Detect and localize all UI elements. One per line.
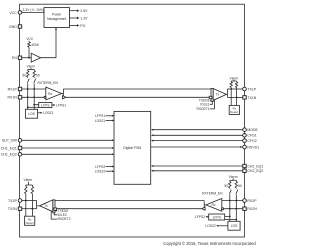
Digital FSM block (114, 111, 151, 184)
svg-text:RX2P: RX2P (247, 199, 257, 203)
svg-text:RX1N: RX1N (7, 96, 17, 100)
wire ch1 N path to output mux (66, 96, 211, 98)
junction dots ch2 termination taps (229, 200, 231, 202)
svg-text:1.2V: 1.2V (80, 16, 88, 20)
PM output 1.2V (70, 16, 89, 20)
wire switch to RX1P line (27, 84, 29, 89)
wire tap to LOS block ch1 (27, 89, 29, 109)
pin CFG1 (243, 134, 257, 138)
svg-text:3.3V (+/- 10%): 3.3V (+/- 10%) (23, 8, 44, 12)
mini driver ch2 N path (202, 207, 205, 210)
pin TX1P (243, 87, 257, 91)
pin RSVD1 (243, 145, 259, 149)
svg-text:TX2P: TX2P (8, 199, 17, 203)
wire to TX2P pin (22, 200, 37, 202)
inversion bubble RX2N input (222, 208, 224, 210)
signal LFPS1 into FSM (95, 114, 114, 118)
wires to Rx Detect ch1 (230, 89, 232, 105)
wire switch to RX1N line (33, 84, 35, 89)
svg-text:LFPS2: LFPS2 (95, 165, 105, 169)
signal IDLE1 (200, 101, 212, 106)
pin CH1_EQ1 (1, 146, 22, 150)
svg-text:RXTERM_EN: RXTERM_EN (38, 81, 59, 85)
Tx1 output split bar (226, 89, 227, 97)
output mux bar ch1 (211, 89, 213, 102)
svg-text:CFG2: CFG2 (247, 139, 256, 143)
svg-text:VCC: VCC (26, 37, 34, 41)
signal RXDET1 (196, 100, 214, 111)
wire CH1_EQ1 to FSM (22, 147, 114, 149)
equalizer output split bar ch2 (204, 201, 206, 208)
signal RXDET2 (51, 212, 71, 222)
svg-text:RSVD1: RSVD1 (247, 145, 259, 149)
equalizer output split bar ch1 (62, 89, 64, 96)
svg-text:400K: 400K (31, 43, 40, 47)
wire tap to LOS block ch2 (235, 201, 237, 222)
pin TX1N (243, 96, 257, 100)
svg-text:50: 50 (36, 73, 40, 77)
pullup resistor TX2P (25, 185, 27, 201)
junction dots TX2 termination (25, 200, 27, 202)
termination switch ch2 N (236, 190, 238, 195)
svg-text:LOSZ2: LOSZ2 (205, 224, 216, 228)
wire to TX1P pin (228, 88, 243, 90)
svg-text:CH2_EQ2: CH2_EQ2 (247, 169, 263, 173)
wire CH1_EQ2 to FSM (22, 153, 114, 155)
resistor 50 ohm ch1 N (33, 69, 40, 77)
resistor 50 ohm ch2 N (235, 180, 242, 188)
svg-text:50: 50 (238, 184, 242, 188)
power management block U-PM (44, 8, 70, 28)
chip boundary box (20, 4, 245, 237)
svg-text:RXDET2: RXDET2 (58, 217, 71, 221)
mini driver ch1 N path (63, 96, 66, 99)
svg-text:CFG1: CFG1 (247, 134, 256, 138)
Tx2 output split bar (37, 201, 40, 209)
pin TX2P (8, 199, 22, 203)
svg-text:SLP_S0#: SLP_S0# (2, 139, 17, 143)
svg-text:CH1_EQ1: CH1_EQ1 (1, 146, 17, 150)
junction EN/pullup (28, 57, 30, 59)
svg-text:LFPS: LFPS (213, 216, 222, 220)
LOS detector ch2 (228, 221, 240, 230)
signal LFPS1 out (52, 103, 66, 107)
pin TX2N (8, 207, 22, 211)
svg-text:Vterm: Vterm (27, 65, 36, 69)
wire FSM to RSVD1 (151, 146, 243, 148)
pin CH2_EQ2 (243, 169, 264, 173)
pin RX1P (8, 87, 22, 91)
svg-text:Copyright © 2016, Texas Instru: Copyright © 2016, Texas Instruments Inco… (163, 241, 256, 246)
wire ch1 P path to output mux (63, 88, 211, 90)
PM output 2.5V (70, 9, 89, 13)
wire RX2P to equalizer (222, 200, 243, 202)
resistor 50 ohm ch1 P (22, 69, 29, 77)
signal LOSZ1 into FSM (95, 119, 114, 123)
signal IDLE2 (54, 213, 67, 217)
svg-text:RX2N: RX2N (247, 207, 257, 211)
svg-text:RXTERM_EN: RXTERM_EN (202, 192, 223, 196)
termination switch ch2 P (229, 190, 231, 195)
wire RX2N to equalizer (224, 208, 243, 210)
svg-text:Vterm: Vterm (230, 76, 239, 80)
svg-text:Tx: Tx (44, 204, 48, 208)
svg-text:LFPS1: LFPS1 (56, 103, 66, 107)
pin EN (12, 56, 22, 60)
LFPS detector ch1 (39, 103, 52, 108)
wire CFG1 to FSM (151, 134, 243, 136)
svg-text:PG: PG (80, 24, 85, 28)
resistor 400K pullup (28, 41, 40, 58)
idle control block ch1 (209, 96, 212, 98)
svg-text:LOSZ1: LOSZ1 (43, 111, 54, 115)
EN input buffer (31, 53, 40, 62)
pin RX1N (7, 96, 21, 100)
pin CH2_EQ1 (243, 164, 264, 168)
pin GND (9, 25, 22, 29)
wire CH2_EQ1 to FSM (151, 165, 243, 167)
svg-text:LFPS2: LFPS2 (195, 215, 205, 219)
Tx driver ch1 (213, 89, 226, 101)
wire RX1P to equalizer (22, 88, 46, 90)
svg-text:RXDET1: RXDET1 (196, 107, 209, 111)
svg-text:CH2_EQ1: CH2_EQ1 (247, 164, 263, 168)
svg-text:Rx: Rx (48, 92, 52, 96)
wire to TX2N pin (22, 208, 37, 210)
pin CFG2 (243, 139, 257, 143)
wire SLP_S0# to FSM (22, 139, 114, 141)
PM output PG (70, 24, 86, 28)
signal LOSZ1 out (38, 111, 54, 115)
svg-text:Vterm: Vterm (24, 178, 33, 182)
svg-text:Detect: Detect (230, 110, 238, 114)
wire ch2 P path to output mux (55, 200, 204, 202)
svg-text:Management: Management (47, 17, 66, 21)
pin RX2P (243, 199, 258, 203)
wires to Rx Detect ch2 (25, 201, 27, 217)
svg-text:LOSZ1: LOSZ1 (95, 119, 106, 123)
pin CH1_EQ2 (1, 153, 22, 157)
Rx equalizer ch1 (46, 87, 62, 100)
wire EN buffer to Power Management (41, 29, 56, 57)
svg-text:2.5V: 2.5V (80, 9, 88, 13)
wire ch2 N path to output mux (55, 208, 202, 210)
termination rail ch1 out (231, 80, 236, 81)
svg-text:LOS: LOS (28, 112, 35, 116)
wire MODE to FSM (151, 129, 243, 131)
Rx Detect block ch2 (25, 216, 35, 225)
wire CH2_EQ2 to FSM (151, 170, 243, 172)
pullup resistor TX1P (230, 81, 232, 89)
junction dots ch1 termination taps (27, 88, 29, 90)
wire switch to RX2P line (229, 195, 231, 201)
svg-text:EN: EN (12, 56, 17, 60)
svg-text:LOS: LOS (231, 224, 238, 228)
svg-text:GND: GND (9, 25, 17, 29)
idle control block ch2 (54, 208, 57, 210)
pin MODE (243, 128, 259, 132)
wire VCC to Power Management (22, 11, 44, 13)
svg-text:50: 50 (224, 184, 228, 188)
wire RX1N to equalizer (22, 96, 44, 98)
signal LOSZ2 into FSM (95, 170, 114, 174)
signal LOSZ2 out (205, 224, 228, 228)
wire tap to LFPS block ch2 (225, 201, 230, 217)
svg-text:TX2N: TX2N (8, 207, 17, 211)
signal TXEN2 (55, 209, 68, 213)
wire tap to LFPS block ch1 (34, 89, 39, 105)
svg-text:Detect: Detect (26, 221, 34, 225)
svg-text:VCC: VCC (9, 11, 17, 15)
wire CFG2 to FSM (151, 140, 243, 142)
signal LFPS2 into FSM (95, 165, 114, 169)
wire EN pin to buffer (22, 57, 32, 59)
Tx driver ch2 (40, 200, 53, 212)
termination rail ch2 out (26, 182, 33, 185)
svg-text:LFPS1: LFPS1 (95, 114, 105, 118)
svg-text:50: 50 (22, 73, 26, 77)
svg-text:TX1P: TX1P (247, 87, 256, 91)
pullup resistor TX2N (31, 185, 33, 209)
svg-text:LFPS: LFPS (41, 104, 50, 108)
pin RX2N (243, 207, 257, 211)
pin SLP_S0# (2, 139, 22, 143)
junction dots TX1 termination (230, 88, 232, 90)
termination rail ch1 (28, 68, 35, 69)
termination rail ch2 (230, 178, 237, 180)
pin VCC (9, 11, 21, 15)
Rx equalizer ch2 (206, 199, 222, 212)
LOS detector ch1 (25, 109, 37, 118)
pullup resistor TX1N (235, 81, 237, 97)
wire switch to RX2N line (235, 195, 237, 201)
signal TXEN1 (199, 98, 211, 102)
svg-text:RX1P: RX1P (8, 87, 18, 91)
svg-text:Tx: Tx (216, 92, 220, 96)
signal LFPS2 out (195, 215, 209, 219)
termination switch ch1 N (34, 79, 36, 84)
svg-text:Rx: Rx (211, 203, 215, 207)
output mux bar ch2 (53, 200, 55, 213)
svg-text:Vterm: Vterm (229, 175, 238, 179)
inversion bubble RX1N input (44, 96, 46, 98)
resistor 50 ohm ch2 P (224, 180, 231, 188)
termination switch ch1 P (27, 79, 29, 84)
wire to TX1N pin (228, 96, 243, 98)
LFPS detector ch2 (209, 214, 225, 220)
svg-text:CH1_EQ2: CH1_EQ2 (1, 153, 17, 157)
svg-text:MODE: MODE (247, 128, 258, 132)
Rx Detect block ch1 (229, 105, 239, 114)
svg-text:TX1N: TX1N (247, 96, 256, 100)
svg-text:IDLE1: IDLE1 (200, 102, 209, 106)
svg-text:Digital FSM: Digital FSM (123, 146, 141, 150)
svg-text:LOSZ2: LOSZ2 (95, 170, 106, 174)
